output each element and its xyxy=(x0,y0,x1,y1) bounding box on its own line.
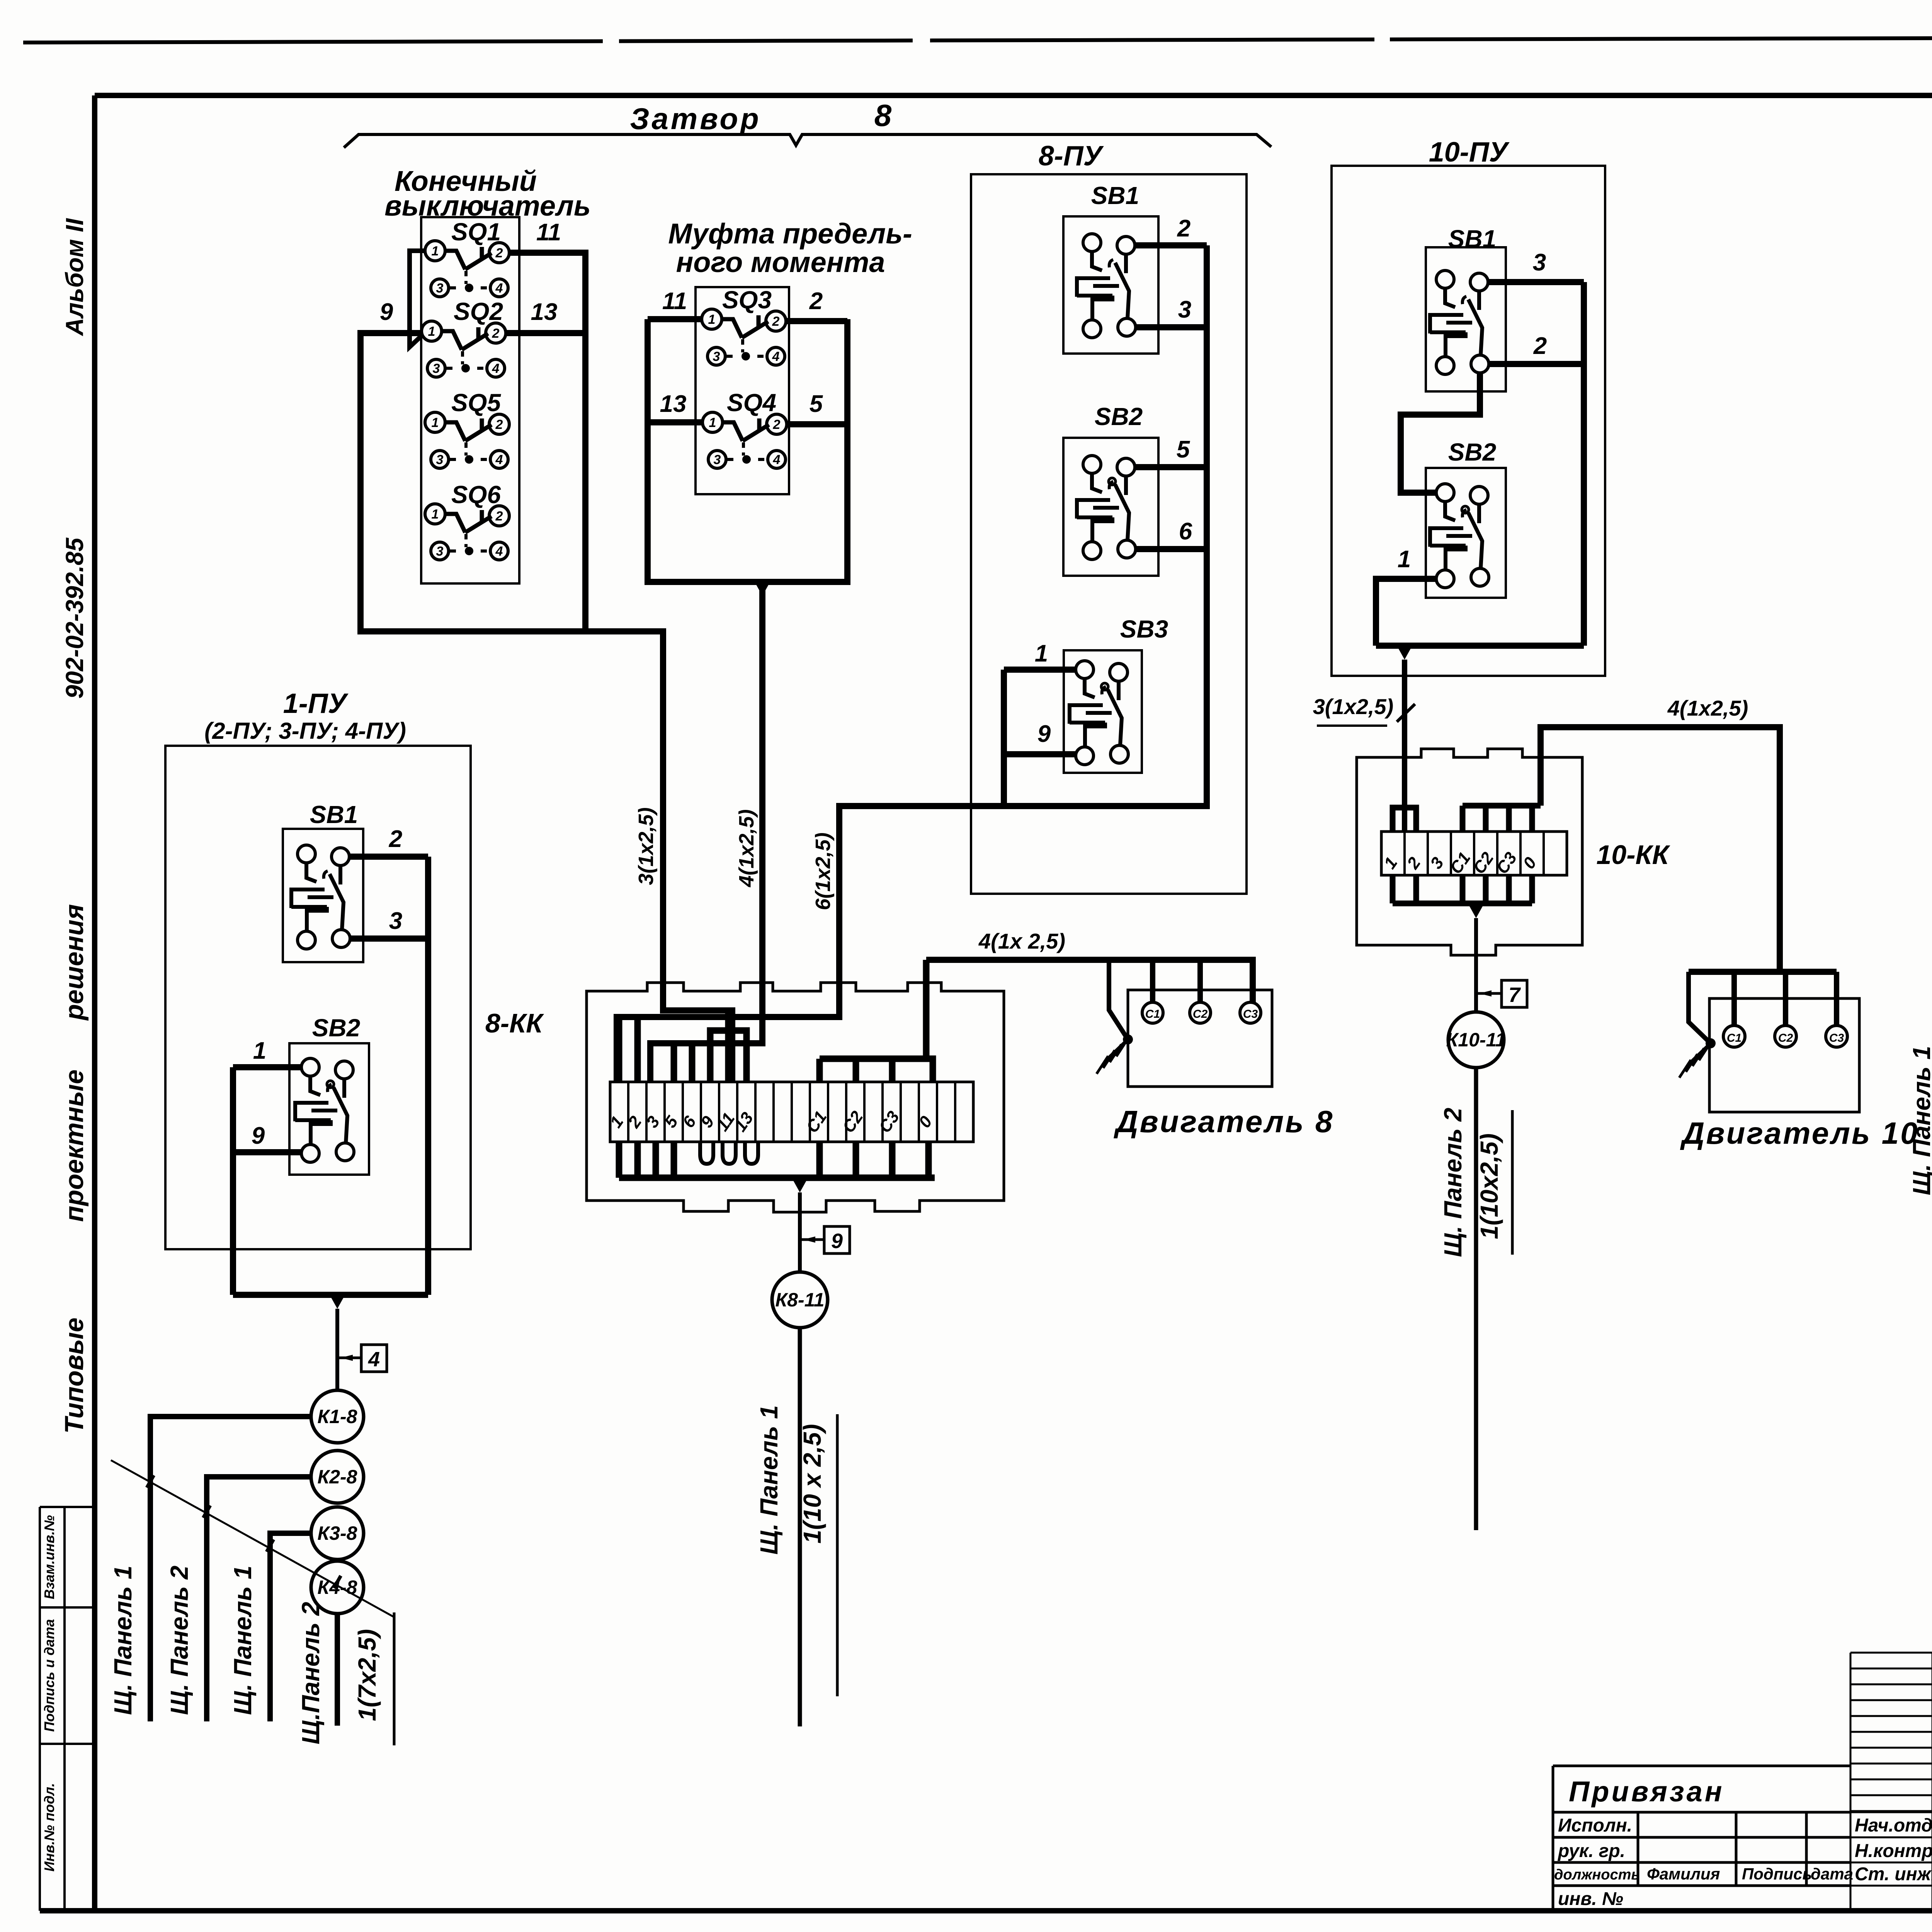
svg-text:2: 2 xyxy=(1177,215,1190,242)
svg-text:2: 2 xyxy=(773,417,781,432)
wire K2-8 to panel xyxy=(207,1477,311,1721)
motor 10 feed bus xyxy=(1689,969,1837,975)
svg-text:4(1х2,5): 4(1х2,5) xyxy=(735,809,758,887)
8-KK C-row feed bus xyxy=(820,960,933,1082)
motor 10 terminal C3 xyxy=(1826,1026,1847,1047)
relay circle K10-11 xyxy=(1448,1012,1504,1068)
1-PU convergence triangle xyxy=(330,1295,345,1309)
wire 5 right of SQ4 xyxy=(787,421,847,427)
svg-text:2: 2 xyxy=(389,826,402,852)
svg-text:Фамилия: Фамилия xyxy=(1647,1865,1720,1883)
10-PU drop wire 3(1x2,5) xyxy=(1402,660,1407,832)
left margin table (Vzam.inv / Podpis i data / Inv.N podl.) xyxy=(40,1507,95,1911)
link SB1 to SB2 (10-PU) xyxy=(1401,373,1480,493)
tag 9 xyxy=(800,1238,824,1241)
svg-text:SB3: SB3 xyxy=(1120,615,1168,643)
underline for 1(7x2,5) xyxy=(393,1612,396,1745)
svg-text:6(1х2,5): 6(1х2,5) xyxy=(811,832,835,910)
svg-text:8: 8 xyxy=(874,98,892,133)
svg-text:2: 2 xyxy=(495,509,503,524)
svg-text:1: 1 xyxy=(428,324,435,339)
relay circle K8-11 xyxy=(772,1272,828,1328)
wire down from K8-11 to panel xyxy=(798,1328,802,1726)
svg-text:Щ. Панель 1: Щ. Панель 1 xyxy=(1908,1046,1932,1196)
svg-text:13: 13 xyxy=(531,299,558,325)
10-PU outline xyxy=(1332,166,1605,676)
top dashed sheet edge line xyxy=(23,36,1932,43)
10-PU convergence triangle xyxy=(1397,646,1412,660)
svg-text:SQ1: SQ1 xyxy=(451,218,501,246)
wire 2 from 10-PU SB1 xyxy=(1489,282,1584,646)
svg-text:1: 1 xyxy=(709,415,716,430)
wire down from K10-11 xyxy=(1474,1068,1478,1530)
svg-text:11: 11 xyxy=(662,288,687,315)
svg-text:4: 4 xyxy=(495,452,503,467)
relay circle K4-8 xyxy=(311,1561,364,1614)
svg-text:1(10х2,5): 1(10х2,5) xyxy=(1475,1133,1503,1239)
wire 1 from 1-PU SB2 xyxy=(233,1064,301,1070)
wire 6 from 8-PU SB2 xyxy=(1136,546,1207,552)
svg-text:8-ПУ: 8-ПУ xyxy=(1039,141,1104,172)
svg-text:902-02-392.85: 902-02-392.85 xyxy=(61,537,88,699)
svg-text:решения: решения xyxy=(60,904,89,1021)
svg-text:С1: С1 xyxy=(1727,1032,1742,1044)
motor 10 box xyxy=(1709,998,1859,1112)
svg-text:3: 3 xyxy=(1178,296,1191,323)
wire 3 from 1-PU SB1 xyxy=(350,857,428,1295)
8-KK hairpin jumpers xyxy=(700,1142,713,1164)
wire 13 from SQ2-2 xyxy=(506,330,585,336)
wire 13 left of SQ4 xyxy=(648,419,702,425)
8-KK harness loops above strip xyxy=(619,1010,747,1082)
svg-text:4: 4 xyxy=(495,544,503,559)
svg-text:Типовые: Типовые xyxy=(60,1318,89,1434)
svg-text:1-ПУ: 1-ПУ xyxy=(283,688,349,719)
svg-text:Щ. Панель 2: Щ. Панель 2 xyxy=(1439,1108,1467,1257)
svg-text:Взам.инв.№: Взам.инв.№ xyxy=(41,1515,57,1599)
8-KK under-strip jumpers and bus xyxy=(619,1142,935,1178)
svg-text:1(7х2,5): 1(7х2,5) xyxy=(353,1629,381,1721)
svg-text:дата: дата xyxy=(1811,1865,1853,1883)
svg-text:3: 3 xyxy=(436,452,444,467)
underline for 1(10x2,5) xyxy=(1511,1110,1514,1255)
motor 10 terminal C1 xyxy=(1723,1026,1745,1047)
svg-text:1: 1 xyxy=(432,415,439,430)
svg-text:13: 13 xyxy=(660,391,687,417)
svg-text:Щ. Панель 1: Щ. Панель 1 xyxy=(109,1566,137,1715)
svg-text:С3: С3 xyxy=(1243,1008,1258,1020)
tag 4 xyxy=(337,1357,361,1359)
svg-text:3: 3 xyxy=(436,281,444,296)
wire K3-8 to panel xyxy=(270,1533,311,1721)
svg-text:Двигатель 10: Двигатель 10 xyxy=(1680,1116,1919,1150)
svg-text:SB2: SB2 xyxy=(1448,438,1497,466)
svg-text:1: 1 xyxy=(1398,546,1411,573)
wire 2 right of SQ3 xyxy=(786,318,847,324)
svg-text:3(1х2,5): 3(1х2,5) xyxy=(1313,694,1394,719)
svg-text:2: 2 xyxy=(495,246,503,260)
motor 8 box xyxy=(1128,990,1272,1087)
wire 3 from 8-PU SB1 xyxy=(1136,324,1207,330)
10-KK terminal strip xyxy=(1381,832,1567,875)
svg-text:Подпись: Подпись xyxy=(1742,1865,1812,1883)
8-KK terminal numbers xyxy=(606,1107,936,1136)
svg-text:4: 4 xyxy=(772,349,780,364)
svg-text:5: 5 xyxy=(1177,436,1190,463)
wire 9 from SQ2-1 routing to 8-KK (label 3(1x2,5) riser) xyxy=(361,333,732,1082)
tag 7 xyxy=(1476,992,1502,995)
svg-text:Инв.№ подл.: Инв.№ подл. xyxy=(41,1783,57,1871)
svg-text:6: 6 xyxy=(1179,518,1192,545)
underline for 1(10x2,5) xyxy=(836,1414,839,1696)
svg-text:1: 1 xyxy=(708,312,716,327)
1-PU bottom bus xyxy=(233,1292,428,1298)
svg-text:К2-8: К2-8 xyxy=(317,1466,357,1488)
relay circle K3-8 xyxy=(311,1507,364,1560)
svg-text:4(1х 2,5): 4(1х 2,5) xyxy=(978,929,1065,953)
wire 11 from SQ1-2 down to terminal row xyxy=(510,253,585,631)
svg-text:Нач.отд.: Нач.отд. xyxy=(1855,1815,1932,1836)
svg-text:SB1: SB1 xyxy=(1091,182,1139,209)
svg-text:SB1: SB1 xyxy=(1448,225,1497,253)
svg-text:1: 1 xyxy=(432,244,439,259)
svg-text:SQ4: SQ4 xyxy=(727,389,776,417)
svg-text:К8-11: К8-11 xyxy=(775,1289,824,1311)
relay circle K2-8 xyxy=(311,1451,364,1503)
svg-text:SB2: SB2 xyxy=(1095,403,1143,430)
svg-text:Исполн.: Исполн. xyxy=(1558,1815,1632,1836)
10-PU bottom bus xyxy=(1376,643,1584,649)
wire SQ1-1 to SQ2-1 jumper xyxy=(410,251,425,347)
svg-text:должность: должность xyxy=(1554,1867,1640,1883)
svg-text:Двигатель 8: Двигатель 8 xyxy=(1114,1104,1334,1139)
svg-text:Щ.Панель 2: Щ.Панель 2 xyxy=(297,1602,325,1745)
svg-text:3(1х2,5): 3(1х2,5) xyxy=(634,807,658,885)
svg-text:Альбом II: Альбом II xyxy=(61,218,88,337)
motor 10 terminal C2 xyxy=(1775,1026,1796,1047)
svg-text:2: 2 xyxy=(495,417,503,432)
10-KK under-strip bus xyxy=(1393,875,1532,903)
svg-text:С2: С2 xyxy=(1778,1032,1793,1044)
wire 4(1x2,5) riser from clutch to 8-KK xyxy=(650,587,762,1082)
svg-text:Щ. Панель 2: Щ. Панель 2 xyxy=(165,1566,193,1715)
wire 1 from 10-PU SB2 xyxy=(1376,579,1436,646)
svg-text:Подпись и дата: Подпись и дата xyxy=(41,1619,57,1732)
10-KK harness above strip xyxy=(1393,808,1416,832)
wire 4(1x2,5) from 10-KK to motor 10 xyxy=(1541,727,1780,972)
limit switch block outline box xyxy=(421,217,519,583)
svg-text:Ст. инж.: Ст. инж. xyxy=(1855,1864,1932,1884)
svg-text:10-КК: 10-КК xyxy=(1596,840,1670,870)
svg-text:9: 9 xyxy=(831,1230,843,1253)
svg-text:9: 9 xyxy=(380,299,393,325)
torque clutch outline box xyxy=(696,287,789,494)
wire 9 from 8-PU SB3 xyxy=(1004,670,1076,806)
svg-text:2: 2 xyxy=(772,314,780,329)
motor 10 ground xyxy=(1689,972,1711,1043)
svg-text:3: 3 xyxy=(436,544,444,559)
svg-text:проектные: проектные xyxy=(60,1070,89,1222)
svg-text:9: 9 xyxy=(252,1122,265,1149)
svg-text:Щ. Панель 1: Щ. Панель 1 xyxy=(229,1566,257,1715)
wire 3 from 10-PU SB1 xyxy=(1488,279,1584,285)
wire 4(1x2,5) from 8-KK 0 to motor 8 xyxy=(926,960,1253,1002)
svg-text:4: 4 xyxy=(368,1348,380,1371)
svg-text:7: 7 xyxy=(1509,983,1521,1007)
wire K4-8 down xyxy=(335,1614,340,1726)
svg-text:3: 3 xyxy=(389,908,402,934)
svg-text:SQ5: SQ5 xyxy=(451,389,501,417)
svg-text:SB2: SB2 xyxy=(312,1014,361,1042)
svg-text:С3: С3 xyxy=(1829,1032,1844,1044)
svg-text:4: 4 xyxy=(495,281,503,296)
svg-text:С1: С1 xyxy=(1145,1008,1160,1020)
convergence triangle on clutch loop xyxy=(755,582,770,596)
svg-text:3: 3 xyxy=(714,452,721,467)
svg-text:К3-8: К3-8 xyxy=(317,1522,357,1544)
svg-text:3: 3 xyxy=(713,349,720,364)
10-KK terminal numbers xyxy=(1380,849,1540,878)
svg-text:Н.контр.: Н.контр. xyxy=(1855,1841,1932,1861)
svg-text:(2-ПУ; 3-ПУ; 4-ПУ): (2-ПУ; 3-ПУ; 4-ПУ) xyxy=(204,718,406,744)
motor 8 terminal C1 xyxy=(1142,1002,1163,1023)
wire 1 from 8-PU SB3 xyxy=(1004,667,1076,673)
wire 9 from 1-PU SB2 xyxy=(233,1067,301,1295)
svg-text:К1-8: К1-8 xyxy=(317,1406,357,1427)
title block left sub-table xyxy=(1553,1766,1850,1911)
8-KK convergence triangle and drop xyxy=(792,1179,808,1192)
svg-text:Привязан: Привязан xyxy=(1569,1776,1725,1808)
1-PU outline xyxy=(165,746,471,1249)
svg-text:11: 11 xyxy=(536,219,561,246)
8-KK castellated outline xyxy=(587,983,1004,1212)
svg-text:SB1: SB1 xyxy=(310,801,358,828)
bracket line over Zatvor 8 group xyxy=(344,134,1271,148)
motor 8 terminal C3 xyxy=(1240,1002,1261,1023)
svg-text:3: 3 xyxy=(1533,249,1546,276)
1-PU drop wire xyxy=(335,1309,339,1390)
svg-text:1: 1 xyxy=(432,507,439,522)
svg-text:9: 9 xyxy=(1037,721,1051,747)
svg-text:1: 1 xyxy=(1035,640,1048,667)
8-KK terminal strip cells xyxy=(610,1082,973,1142)
motor 8 ground xyxy=(1109,960,1128,1039)
svg-text:рук. гр.: рук. гр. xyxy=(1557,1841,1625,1861)
10-KK convergence triangle and drop xyxy=(1468,904,1484,918)
svg-text:8-КК: 8-КК xyxy=(485,1008,544,1038)
wire 2 from 8-PU SB1 xyxy=(1135,242,1207,248)
8-PU block outline xyxy=(971,174,1247,894)
svg-text:1(10 х 2,5): 1(10 х 2,5) xyxy=(798,1424,826,1544)
svg-text:ного момента: ного момента xyxy=(676,246,885,278)
svg-text:Муфта предель-: Муфта предель- xyxy=(668,218,912,250)
wire 11 left of SQ3 xyxy=(648,316,701,322)
svg-text:4: 4 xyxy=(773,452,781,467)
svg-text:4(1х2,5): 4(1х2,5) xyxy=(1667,696,1748,720)
clutch wiring U loop xyxy=(648,319,847,582)
relay circle K1-8 xyxy=(311,1390,364,1443)
svg-text:SQ2: SQ2 xyxy=(454,298,503,325)
8-PU outgoing bus 2/3/5/6 down and left xyxy=(617,245,1207,1082)
svg-text:инв. №: инв. № xyxy=(1558,1889,1623,1909)
10-KK castellated outline xyxy=(1357,749,1582,955)
svg-text:SQ3: SQ3 xyxy=(722,286,772,314)
svg-text:SQ6: SQ6 xyxy=(451,481,501,509)
svg-text:Щ. Панель 1: Щ. Панель 1 xyxy=(755,1405,783,1555)
svg-text:4: 4 xyxy=(492,361,500,376)
group crossing diagonal (left) xyxy=(111,1460,394,1617)
svg-text:К10-11: К10-11 xyxy=(1446,1029,1506,1051)
svg-text:Затвор: Затвор xyxy=(630,102,761,136)
wire 5 from 8-PU SB2 xyxy=(1135,464,1207,470)
motor 8 terminal C2 xyxy=(1190,1002,1211,1023)
svg-text:3: 3 xyxy=(433,361,440,376)
wire K1-8 to panel xyxy=(150,1417,311,1721)
svg-text:2: 2 xyxy=(809,288,823,315)
svg-text:1: 1 xyxy=(253,1037,266,1064)
svg-text:10-ПУ: 10-ПУ xyxy=(1429,137,1510,168)
wire 2 from 1-PU SB1 xyxy=(349,854,428,860)
title block middle grid xyxy=(1850,1653,1932,1911)
svg-text:2: 2 xyxy=(492,326,500,341)
svg-text:2: 2 xyxy=(1533,333,1547,359)
svg-text:5: 5 xyxy=(810,391,823,417)
svg-text:С2: С2 xyxy=(1193,1008,1208,1020)
